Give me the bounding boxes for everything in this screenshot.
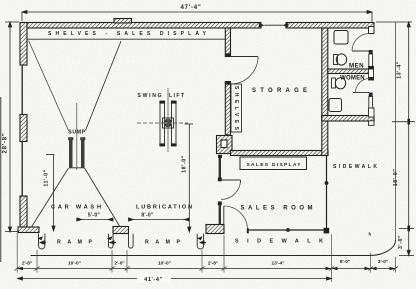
bottom dim row1 line xyxy=(15,267,399,271)
sales display counter xyxy=(240,157,307,170)
dim top line xyxy=(22,10,372,22)
shelf line xyxy=(28,38,226,40)
men door arc xyxy=(352,34,370,52)
svg-text:28'-8": 28'-8" xyxy=(3,132,9,153)
car wash hoist line upper right xyxy=(86,41,122,131)
sales room left wall lower xyxy=(219,205,221,224)
sales room left wall upper xyxy=(219,157,221,178)
svg-text:13'-4": 13'-4" xyxy=(271,261,284,267)
svg-text:47'-4": 47'-4" xyxy=(180,5,201,11)
svg-text:10'-0": 10'-0" xyxy=(68,261,81,267)
women sink xyxy=(329,99,342,112)
lift hub circle xyxy=(164,119,172,127)
dim 8-0 line xyxy=(129,218,190,221)
pilaster bump xyxy=(114,19,132,23)
storage door leaf xyxy=(231,57,259,60)
men door leaf xyxy=(352,50,369,52)
storefront column dot right xyxy=(325,181,329,185)
sales room door jamb upper xyxy=(218,178,222,182)
dim left line xyxy=(5,22,19,232)
women door leaf xyxy=(353,92,369,94)
shelves rack storage xyxy=(231,84,242,132)
curb channel 1 xyxy=(39,234,45,249)
svg-text:SHELVES - SALES DISPLAY: SHELVES - SALES DISPLAY xyxy=(48,31,207,37)
sales room door jamb lower xyxy=(218,202,222,206)
svg-text:LUBRICATION: LUBRICATION xyxy=(136,205,192,211)
sales room left wall jamb top xyxy=(218,155,222,158)
sales entrance strike jamb xyxy=(247,228,249,233)
left wall pier C xyxy=(20,196,27,228)
women door arc xyxy=(356,79,370,93)
storage door jamb caps xyxy=(225,53,230,84)
storage wall lower xyxy=(225,82,230,136)
men toilet tank xyxy=(334,55,338,65)
dim 18-0 bay line xyxy=(185,124,194,232)
svg-text:SIDEWALK: SIDEWALK xyxy=(333,164,377,170)
svg-text:18'-0": 18'-0" xyxy=(393,169,399,187)
svg-text:STORAGE: STORAGE xyxy=(252,88,307,94)
svg-text:MEN: MEN xyxy=(349,63,364,70)
svg-text:3'-0": 3'-0" xyxy=(398,235,404,249)
swing lift rail left xyxy=(160,101,165,146)
svg-text:WOMEN: WOMEN xyxy=(340,76,365,82)
storefront right glass line xyxy=(326,156,328,234)
left wall pier A xyxy=(20,23,27,66)
restroom dividing wall xyxy=(328,69,369,74)
dim 11-0 line xyxy=(46,155,55,232)
ramp arrows 3 xyxy=(197,236,206,244)
front pier 3 xyxy=(206,225,224,234)
svg-text:8'-0": 8'-0" xyxy=(141,213,154,219)
dim right line xyxy=(376,22,415,256)
car wash hoist line lower right xyxy=(85,168,120,226)
women toilet bowl xyxy=(335,78,345,89)
sales side door leaf xyxy=(221,179,241,181)
sump left bar xyxy=(69,138,73,168)
scan page edge artifact xyxy=(0,97,2,262)
mid jamb block xyxy=(369,67,374,81)
women door hinge jamb xyxy=(369,93,373,97)
svg-text:41'-4": 41'-4" xyxy=(144,277,163,283)
sales side door arc xyxy=(221,180,241,200)
front pier 2 xyxy=(113,227,129,234)
sales entrance door arc xyxy=(224,206,248,230)
svg-text:2'-8": 2'-8" xyxy=(208,261,218,267)
wall between doors upper xyxy=(369,54,373,67)
svg-text:11'-0": 11'-0" xyxy=(44,169,50,186)
storage wall upper xyxy=(225,28,230,57)
restroom left wall xyxy=(322,28,328,156)
bottom-left corner wall xyxy=(18,227,39,233)
storage door arc xyxy=(231,57,259,85)
storage L pier xyxy=(217,136,233,154)
svg-text:h: h xyxy=(369,232,372,237)
storefront column dot bottom xyxy=(286,228,290,232)
curb channel 3 xyxy=(197,234,203,249)
storefront corner column xyxy=(324,228,330,234)
swing lift rail right xyxy=(172,101,177,146)
car wash hoist line upper left xyxy=(29,41,69,131)
right wing corner jamb top xyxy=(369,27,375,34)
dim 41-4 label xyxy=(137,274,171,283)
wing bottom corner block xyxy=(369,121,375,126)
top wall window line xyxy=(264,24,283,26)
storage bottom wall xyxy=(231,151,329,156)
left wall thin segments xyxy=(21,65,23,196)
top wall window jambs xyxy=(259,23,288,28)
svg-text:CAR WASH: CAR WASH xyxy=(51,205,101,211)
lift center box xyxy=(163,118,174,128)
svg-text:8'-0": 8'-0" xyxy=(340,259,350,265)
car wash hoist line lower left xyxy=(32,168,69,227)
storage L pier hole xyxy=(221,140,227,148)
svg-text:2'-0": 2'-0" xyxy=(114,261,124,267)
men door hinge jamb xyxy=(369,50,373,54)
dim row1 arrowheads xyxy=(17,267,396,271)
svg-text:3'-0": 3'-0" xyxy=(378,259,388,265)
women toilet tank xyxy=(332,78,336,88)
bottom dim row2 line xyxy=(18,277,332,280)
wall below women door xyxy=(369,97,373,109)
sidewalk edge right xyxy=(395,23,397,241)
sump bottom xyxy=(69,167,85,169)
men sink xyxy=(334,31,348,45)
dim 5-0 line xyxy=(77,218,113,221)
apron curb line xyxy=(31,240,396,256)
svg-text:2'-8": 2'-8" xyxy=(22,261,32,267)
wall top-right xyxy=(286,23,374,29)
svg-text:10'-0": 10'-0" xyxy=(158,261,171,267)
men toilet bowl xyxy=(336,54,346,65)
svg-text:5'-0": 5'-0" xyxy=(88,213,101,219)
svg-text:SUMP: SUMP xyxy=(68,130,85,136)
lift centerline horizontal dashed xyxy=(137,122,188,124)
svg-text:LIFT: LIFT xyxy=(169,93,184,99)
wing bottom wall xyxy=(322,116,374,122)
sales entrance door leaf xyxy=(223,206,225,230)
left wall pier B xyxy=(20,115,27,142)
curb channel 2 xyxy=(109,234,114,248)
sump right bar xyxy=(81,138,85,168)
wall top-left xyxy=(22,23,261,29)
bottom dim row1 ext lines xyxy=(17,233,395,282)
storefront bottom glass line xyxy=(249,229,329,231)
ramp arrows 2 xyxy=(107,236,116,244)
lift centerline vertical xyxy=(167,88,169,152)
ramp arrows 1 xyxy=(38,236,47,244)
svg-text:13'-4": 13'-4" xyxy=(397,61,403,79)
sump centerline xyxy=(76,103,78,170)
wing bottom jamb block xyxy=(369,108,375,117)
svg-text:18'-0": 18'-0" xyxy=(181,155,187,173)
curb channel 2b xyxy=(129,234,134,248)
